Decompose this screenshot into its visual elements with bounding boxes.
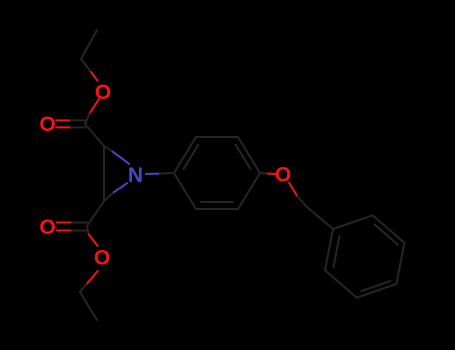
wire benzyl inner double bond 1 xyxy=(375,225,399,245)
wire ester O to CH2 bottom xyxy=(86,271,98,285)
wire ethyl CH3-CH2 top xyxy=(81,30,97,59)
wire benzyl CH2 to ipso C xyxy=(307,207,333,229)
wire O-C carbonyl top xyxy=(90,99,100,114)
svg-text:O: O xyxy=(95,81,111,104)
wire CH2-O ester top xyxy=(81,59,91,72)
wire benzyl inner double bond 3 xyxy=(334,236,340,267)
svg-text:N: N xyxy=(128,164,143,187)
wire aziridine C2-C3 xyxy=(103,146,105,201)
svg-text:O: O xyxy=(275,164,291,187)
capacitor-like C=O double bond top xyxy=(56,119,71,121)
capacitor-like C=O double bond bottom xyxy=(57,222,72,224)
wire N to aryl ring xyxy=(146,173,160,175)
wire N-C2 xyxy=(111,151,129,164)
wire bottom carbonyl C to ester O xyxy=(87,226,89,234)
node benzyl phenyl ring xyxy=(325,215,404,297)
wire inner double bond L-TL xyxy=(184,145,199,170)
wire benzyl inner double bond 2 xyxy=(361,281,390,291)
wire ethyl CH2-CH3 bottom xyxy=(80,292,97,320)
wire N-C3 xyxy=(113,183,127,193)
wire ring to O ether xyxy=(260,172,268,175)
svg-text:O: O xyxy=(94,247,110,270)
wire inner double bond TR-R xyxy=(236,145,251,170)
node central benzene ring xyxy=(174,137,260,209)
wire inner double bond BR-BL xyxy=(201,201,233,203)
wire carbonyl C to aziridine C2 xyxy=(85,124,104,146)
svg-text:O: O xyxy=(39,113,55,136)
svg-text:O: O xyxy=(39,216,55,239)
wire C3 to bottom carbonyl xyxy=(87,201,104,226)
wire O ether to benzyl CH2 xyxy=(289,183,298,197)
